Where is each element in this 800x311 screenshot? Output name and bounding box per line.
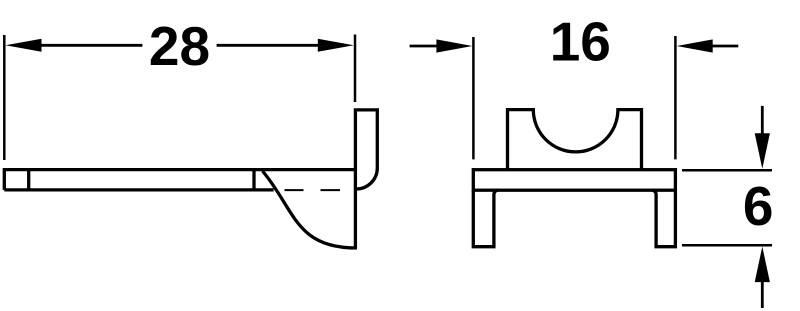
svg-text:28: 28 xyxy=(149,15,210,77)
svg-text:16: 16 xyxy=(550,11,611,73)
svg-text:6: 6 xyxy=(743,175,774,237)
